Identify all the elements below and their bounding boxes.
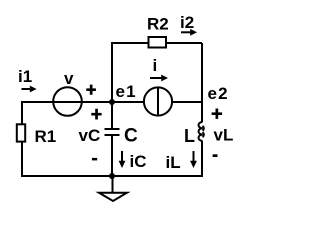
svg-text:e1: e1 bbox=[116, 82, 137, 101]
svg-text:v: v bbox=[64, 69, 74, 88]
svg-text:C: C bbox=[124, 126, 138, 147]
svg-text:R2: R2 bbox=[147, 15, 169, 34]
svg-text:L: L bbox=[184, 126, 195, 146]
svg-text:i1: i1 bbox=[18, 67, 32, 86]
svg-text:i: i bbox=[153, 56, 158, 75]
svg-text:e2: e2 bbox=[208, 84, 229, 103]
svg-text:iL: iL bbox=[166, 153, 181, 172]
svg-text:iC: iC bbox=[130, 152, 147, 171]
svg-text:i2: i2 bbox=[180, 13, 194, 32]
svg-text:R1: R1 bbox=[35, 127, 57, 146]
svg-text:vC: vC bbox=[79, 126, 101, 145]
svg-text:vL: vL bbox=[214, 126, 234, 145]
